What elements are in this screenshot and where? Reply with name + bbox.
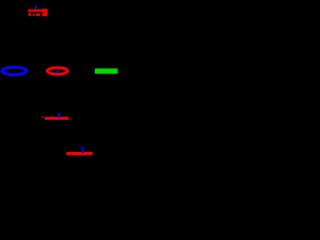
blue tick inside red ellipse (57, 69, 59, 73)
row-3 red bar node (42, 116, 71, 120)
red ellipse node (center, middle row) (47, 68, 67, 75)
blue arrowhead tick above top node (35, 5, 37, 10)
green bar (right, middle row) (95, 69, 118, 74)
blue ellipse node (left, middle row) (2, 67, 26, 75)
blue tick on row-4 bar (82, 147, 84, 154)
top red node: ring glyph (42, 9, 47, 16)
row-4 red bar node (66, 152, 92, 155)
top red node: bar (28, 9, 44, 11)
top red node: label glyphs (28, 12, 40, 16)
blue tick on row-3 bar (58, 114, 60, 119)
